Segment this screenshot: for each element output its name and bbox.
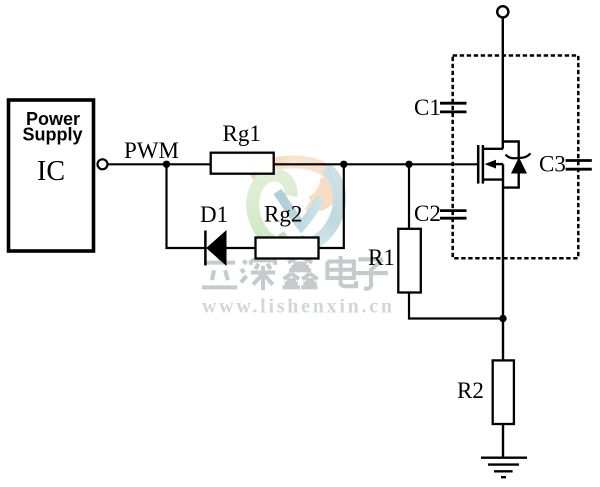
body diode branch wires bbox=[503, 142, 519, 188]
capacitor C3 bbox=[566, 161, 592, 170]
wire node D down to R2 bbox=[502, 319, 504, 361]
body diode of MOSFET bbox=[506, 153, 531, 173]
top drain terminal bbox=[497, 6, 508, 17]
capacitor C1 bbox=[440, 103, 467, 112]
diode D1 bbox=[205, 230, 255, 266]
svg-text:Supply: Supply bbox=[22, 124, 82, 144]
node D junction dot bbox=[499, 315, 506, 322]
node A junction dot bbox=[163, 161, 170, 168]
ground bbox=[481, 458, 527, 478]
svg-text:R2: R2 bbox=[457, 378, 484, 403]
svg-text:C1: C1 bbox=[414, 95, 441, 120]
svg-text:Rg1: Rg1 bbox=[223, 121, 261, 146]
wire PWM output to Rg1 bbox=[108, 163, 211, 165]
svg-text:PWM: PWM bbox=[124, 138, 179, 163]
resistor Rg1 bbox=[211, 153, 274, 174]
svg-text:C3: C3 bbox=[539, 151, 566, 176]
wire Rg1 to MOSFET gate bbox=[274, 163, 478, 165]
wire node C down to R1 bbox=[408, 164, 410, 229]
terminal pin of IC bbox=[98, 159, 108, 169]
watermark text 立深鑫电子 bbox=[202, 256, 388, 290]
node B junction dot bbox=[340, 161, 347, 168]
wire R2 to ground bbox=[502, 424, 504, 458]
node C junction dot bbox=[405, 161, 412, 168]
wire Rg2 up to node B bbox=[319, 164, 344, 248]
svg-text:Rg2: Rg2 bbox=[264, 202, 302, 227]
power supply IC box U1 bbox=[9, 100, 94, 251]
svg-text:D1: D1 bbox=[200, 202, 228, 227]
svg-text:C2: C2 bbox=[414, 201, 441, 226]
wire R1 bottom to node D bbox=[409, 293, 503, 319]
resistor R2 bbox=[493, 360, 514, 424]
svg-text:R1: R1 bbox=[368, 245, 395, 270]
dashed parasitic box bbox=[453, 56, 579, 259]
svg-text:www.lishenxin.cn: www.lishenxin.cn bbox=[202, 296, 392, 318]
resistor R1 bbox=[398, 229, 421, 293]
capacitor C2 bbox=[440, 211, 467, 219]
wire node A down to D1 bbox=[167, 164, 205, 248]
svg-text:IC: IC bbox=[37, 156, 65, 187]
wire drain terminal down bbox=[502, 17, 504, 148]
resistor Rg2 bbox=[256, 238, 319, 259]
wire MOSFET source down to node D bbox=[502, 164, 504, 318]
transistor Q1 MOSFET bbox=[478, 145, 503, 184]
